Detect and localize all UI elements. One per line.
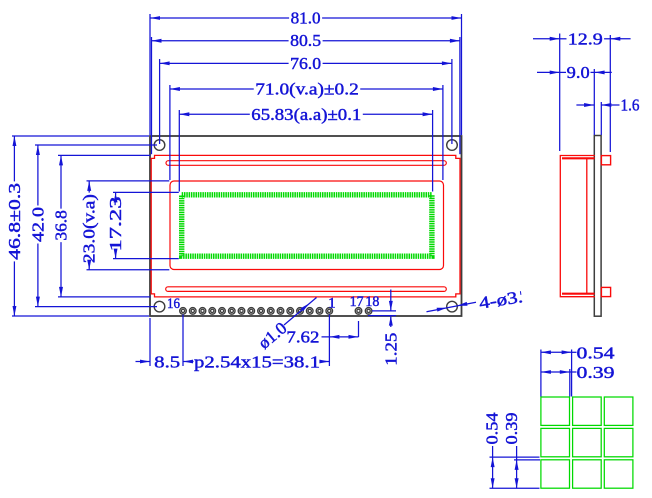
svg-text:12.9: 12.9 bbox=[568, 29, 603, 48]
bezel top slot bbox=[166, 161, 446, 166]
LCD module PCB outline (front view) bbox=[150, 136, 462, 316]
leader and label 4-φ3.0 for mounting holes bbox=[427, 302, 477, 312]
svg-text:0.54: 0.54 bbox=[483, 412, 502, 445]
side view bezel tab top bbox=[601, 156, 610, 165]
dimension 42.0 bbox=[37, 145, 39, 206]
svg-text:16: 16 bbox=[167, 296, 180, 312]
dimension 81.0 bbox=[150, 17, 289, 19]
extension line PCB left edge down bbox=[149, 318, 151, 366]
mounting hole top-left bbox=[154, 140, 165, 151]
svg-text:42.0: 42.0 bbox=[28, 207, 47, 242]
svg-text:17: 17 bbox=[350, 294, 364, 310]
pixel dimension 0.39 vertical bbox=[516, 446, 518, 488]
dimension 9.0 bbox=[537, 71, 560, 73]
dimension 17.23 bbox=[115, 192, 117, 195]
svg-text:9.0: 9.0 bbox=[567, 63, 590, 82]
pin 17 bbox=[355, 308, 362, 315]
svg-text:71.0(v.a)±0.2: 71.0(v.a)±0.2 bbox=[255, 80, 359, 99]
extension lines top left bbox=[149, 14, 151, 135]
dimension 46.8±0.3 bbox=[13, 136, 15, 181]
svg-text:17.23: 17.23 bbox=[106, 197, 125, 252]
extension line pin18 right bbox=[372, 310, 396, 312]
svg-text:7.62: 7.62 bbox=[286, 327, 319, 346]
pixel dimension 0.54 horizontal bbox=[541, 351, 572, 353]
dimension 80.5 bbox=[152, 40, 289, 42]
side view bezel tab bottom bbox=[601, 287, 610, 296]
dimension 1.25 bbox=[390, 290, 392, 311]
extension line pin16 down bbox=[182, 315, 184, 367]
side view bezel outer outline bbox=[560, 156, 595, 297]
svg-text:65.83(a.a)±0.1: 65.83(a.a)±0.1 bbox=[251, 105, 361, 124]
dimension 23.0(v.a) bbox=[88, 181, 90, 193]
pixel grid extension lines left bbox=[490, 456, 540, 458]
pixel grid extension lines top bbox=[540, 350, 542, 397]
mounting hole bottom-left bbox=[154, 301, 165, 312]
svg-text:8.5: 8.5 bbox=[154, 353, 180, 372]
dimension 8.5 bbox=[136, 361, 151, 363]
leader and label φ1.0 bbox=[284, 298, 317, 326]
pixel dimension 0.39 horizontal bbox=[541, 371, 570, 373]
dimension p2.54x15=38.1 bbox=[183, 361, 194, 363]
side view bezel inner top flange bbox=[562, 157, 595, 159]
svg-text:46.8±0.3: 46.8±0.3 bbox=[5, 183, 24, 260]
svg-text:1.6: 1.6 bbox=[621, 96, 640, 115]
active area hatched green border 65.83 x 17.23 bbox=[182, 195, 432, 256]
side view PCB edge bar bbox=[594, 136, 601, 317]
svg-text:4-ø3.: 4-ø3. bbox=[478, 287, 524, 313]
dimension 1.6 bbox=[576, 104, 594, 106]
dimension 36.8 bbox=[60, 155, 62, 208]
svg-text:p2.54x15=38.1: p2.54x15=38.1 bbox=[194, 353, 320, 372]
svg-text:1.25: 1.25 bbox=[381, 333, 400, 366]
svg-text:76.0: 76.0 bbox=[290, 54, 321, 73]
mounting hole bottom-right bbox=[447, 301, 458, 312]
pin header row pins 16..1 bbox=[180, 308, 187, 315]
mounting hole top-right bbox=[447, 140, 458, 151]
dimension 71.0(v.a)±0.2 bbox=[170, 88, 254, 90]
pixel dimension 0.54 vertical bbox=[492, 446, 494, 488]
metal bezel outline with corner steps bbox=[151, 155, 460, 297]
svg-text:0.54: 0.54 bbox=[577, 344, 616, 363]
side view bezel inner bottom flange bbox=[562, 293, 595, 295]
svg-text:0.39: 0.39 bbox=[502, 413, 521, 445]
svg-text:23.0(v.a): 23.0(v.a) bbox=[80, 194, 99, 263]
extension line PCB bottom right bbox=[368, 315, 396, 317]
extension lines top right bbox=[461, 14, 463, 135]
side view bezel inner vertical bbox=[586, 158, 588, 293]
extension line pin1 down bbox=[328, 315, 330, 367]
dimension 65.83(a.a)±0.1 bbox=[179, 113, 250, 115]
extension line pin17 down bbox=[358, 321, 360, 337]
svg-text:81.0: 81.0 bbox=[291, 9, 321, 28]
extension lines left side bbox=[12, 135, 149, 137]
svg-text:1: 1 bbox=[328, 296, 336, 312]
dimension 12.9 bbox=[533, 38, 560, 40]
dimension 7.62 bbox=[322, 336, 359, 338]
svg-text:80.5: 80.5 bbox=[290, 31, 321, 50]
pin 18 bbox=[365, 308, 372, 315]
viewing area rounded rectangle 71.0 x 23.0 bbox=[170, 181, 444, 270]
svg-text:18: 18 bbox=[365, 294, 379, 310]
dimension 76.0 bbox=[160, 62, 289, 64]
svg-text:36.8: 36.8 bbox=[52, 210, 71, 241]
side view extension lines bbox=[559, 34, 561, 152]
character pixel grid 3x3 green squares bbox=[541, 397, 570, 425]
bezel bottom slot bbox=[166, 287, 447, 292]
svg-text:0.39: 0.39 bbox=[577, 363, 615, 382]
